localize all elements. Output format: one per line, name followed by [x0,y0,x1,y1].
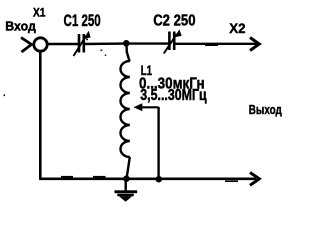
label Выход [249,104,283,118]
label X1 [33,7,45,20]
wire dash artifact bottom rail left [61,176,73,178]
svg-text:Выход: Выход [249,104,283,118]
wire X1 to C1 [48,43,78,45]
wire dash artifact bottom rail right [225,180,238,182]
terminal X2 arrow [250,38,259,51]
value label 0...30мкГн [139,76,205,93]
label Вход [5,19,35,33]
label C1 250 [64,12,101,31]
wire bottom rail [39,178,256,181]
wire dash artifact top rail [205,44,218,46]
wire node A to L1 [127,44,130,62]
wire L1 to bottom rail [127,157,130,179]
svg-text:Вход: Вход [5,19,35,33]
inductor L1 [121,61,130,157]
wire left vertical [39,51,42,179]
scan speck [86,39,88,40]
terminal X1 [34,38,47,51]
svg-text:3,5...30МГц: 3,5...30МГц [140,86,207,104]
wire C2 to X2 [175,43,257,45]
node A junction [123,40,130,47]
wire C1 to node A [85,42,126,45]
scan speck [105,55,106,56]
junction L1 bottom [123,175,130,182]
label C2 250 [153,12,195,29]
svg-text:C2 250: C2 250 [153,12,195,29]
input arrow [21,38,32,53]
scan speck [101,50,103,51]
label L1 [141,62,153,78]
capacitor C1 [74,32,91,56]
ground [115,181,138,202]
label X2 [229,20,246,35]
wire dash artifact bottom rail mid [93,176,106,178]
L1 tap arrow [134,103,159,111]
scan speck [4,95,6,97]
wire node A to C2 [127,42,169,44]
output arrow bottom [250,173,259,186]
value label 3,5...30МГц [140,86,207,104]
svg-text:X1: X1 [33,7,45,20]
wire tap to bottom rail [157,107,159,179]
svg-text:C1 250: C1 250 [64,12,101,31]
svg-text:X2: X2 [229,20,246,35]
capacitor C2 [164,31,181,54]
junction tap bottom [156,176,163,183]
